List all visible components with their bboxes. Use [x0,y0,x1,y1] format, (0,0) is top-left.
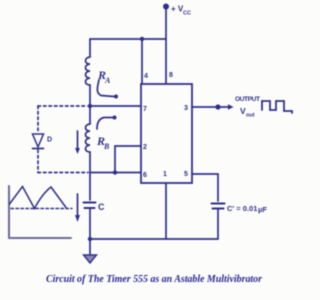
svg-text:OUTPUT: OUTPUT [235,96,260,103]
svg-text:2: 2 [143,144,147,151]
svg-text:5: 5 [184,171,188,178]
svg-text:7: 7 [143,106,147,113]
label RA [97,68,118,99]
node output terminal [215,104,220,109]
capacitor C [84,203,96,209]
wire rail to RA [89,39,91,57]
wire output arrow [221,104,234,110]
node junction pin4 rail [140,37,144,41]
resistor RA [86,57,91,85]
svg-text:1: 1 [163,171,167,178]
arrow current RB [75,131,80,154]
wire pin 3 output [192,106,218,108]
capacitor C' [212,204,225,209]
svg-text:8: 8 [169,72,173,79]
wire dashed trough line [11,208,72,210]
wire dashed diode bottom [38,172,88,174]
wire pin 2 hook [115,146,141,173]
node junction pin6 [113,170,117,174]
label C' value [227,204,267,214]
label OUTPUT Vout [235,96,260,119]
svg-text:out: out [246,113,255,119]
op-amp U1 555 timer body [141,84,192,183]
svg-text:C: C [98,202,105,212]
svg-text:A: A [104,76,111,85]
svg-text:Circuit of The Timer 555 as an: Circuit of The Timer 555 as an Astable M… [46,274,262,285]
svg-text:CC: CC [183,11,191,17]
pin labels [143,72,188,179]
node +Vcc terminal [163,4,169,10]
wire ground rail [90,238,218,240]
wire pin 5 to cap C' [192,174,218,201]
resistor RB [86,124,91,156]
ground [84,239,97,263]
waveform graph axes [9,186,71,238]
svg-text:D: D [47,137,52,144]
wire dashed diode top [38,105,86,107]
svg-text:4: 4 [144,73,148,80]
svg-text:+ V: + V [171,5,184,14]
wire RB to cap C [89,156,91,200]
wire Vcc to pin 8 [165,8,167,84]
wire top rail [90,38,166,40]
waveform output square wave [262,101,292,113]
wire pin 1 to ground rail [165,183,167,239]
wire junction to pin 6 [90,172,141,174]
wire dashed diode cathode [37,150,39,173]
waveform capacitor triangle wave [10,187,67,209]
wire RA to junction to RB [89,85,91,124]
label RB [96,116,117,152]
diode D [33,134,44,149]
svg-text:B: B [103,142,110,151]
wire cap C to ground rail [89,208,91,239]
wire cap C' to ground rail [217,209,219,239]
node junction pin7 [88,104,92,108]
arrow current C [75,194,80,222]
wire junction to pin 7 [88,105,141,107]
label +Vcc [171,5,191,17]
wire dashed diode anode [37,106,39,132]
node junction ground rail [88,237,92,241]
svg-text:6: 6 [143,172,147,179]
svg-text:µF: µF [258,205,267,214]
svg-text:C′ = 0.01: C′ = 0.01 [227,204,257,213]
svg-text:3: 3 [184,105,188,112]
wire rail to pin 4 [141,39,143,84]
